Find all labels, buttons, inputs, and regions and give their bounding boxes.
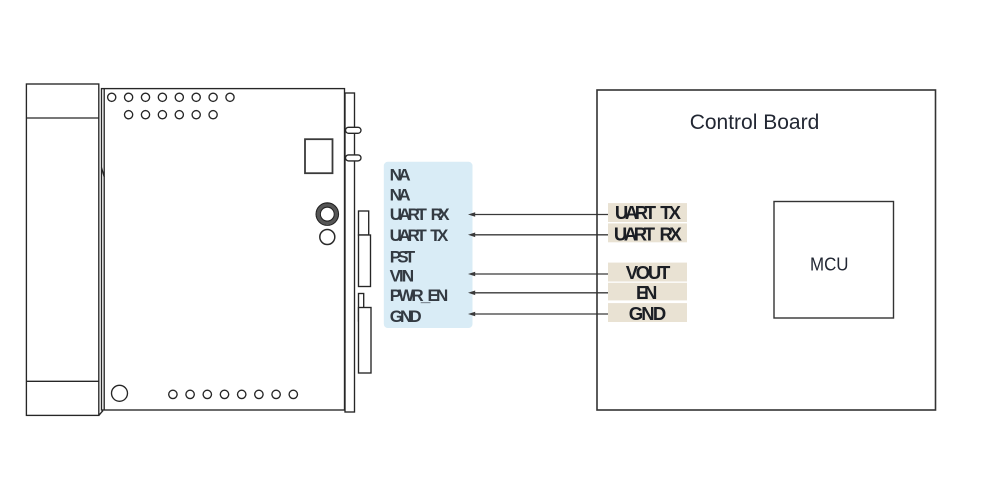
svg-text:TX: TX — [660, 202, 681, 223]
control pin EN box — [608, 283, 687, 301]
svg-text:GND: GND — [390, 307, 422, 326]
pin 2 — [346, 155, 362, 161]
control pin UART RX box — [608, 223, 687, 242]
control board outline — [597, 90, 936, 410]
svg-text:MCU: MCU — [810, 254, 849, 275]
control pin VOUT box — [608, 263, 687, 282]
module pin-name panel (blue) — [384, 162, 473, 328]
barrel to pcb bottom bevel — [99, 411, 103, 416]
svg-text:NA: NA — [390, 165, 411, 184]
svg-text:UART: UART — [390, 205, 428, 224]
small square component top right — [305, 139, 333, 173]
wire EN -> PWR_EN — [468, 291, 611, 296]
svg-text:UART: UART — [390, 226, 428, 245]
svg-text:RX: RX — [660, 223, 683, 244]
svg-text:Control Board: Control Board — [690, 111, 820, 134]
top hole row 2 (6 holes) — [125, 111, 218, 119]
svg-text:UART: UART — [614, 223, 656, 244]
lidar module lens barrel — [26, 84, 103, 415]
svg-text:VIN: VIN — [390, 267, 415, 286]
right side wall strip — [345, 93, 355, 412]
MCU block — [774, 202, 894, 319]
top hole row 1 (8 holes) — [108, 93, 234, 101]
wire VOUT -> VIN — [468, 272, 611, 277]
pin 1 (top right) — [346, 127, 362, 133]
wire GND -> GND — [468, 312, 611, 317]
small circle below ring — [320, 230, 335, 245]
svg-text:GND: GND — [629, 303, 667, 324]
wire UART RX -> UART TX — [468, 233, 611, 238]
svg-text:NA: NA — [390, 186, 411, 205]
svg-text:EN: EN — [636, 282, 657, 303]
bottom left big hole — [112, 385, 128, 401]
control pin UART TX box — [608, 203, 687, 222]
svg-text:PWR_EN: PWR_EN — [390, 286, 449, 305]
svg-text:UART: UART — [615, 202, 657, 223]
lens barrel top line — [26, 117, 98, 119]
pcb inner left edge line — [103, 89, 105, 410]
module PCB body — [102, 89, 345, 410]
ring component (lens screw) — [316, 203, 338, 225]
bottom hole row (8 holes) — [169, 390, 298, 398]
small diagonal tick on left edge — [102, 168, 105, 178]
control pin GND box — [608, 303, 687, 322]
lower connector block — [359, 294, 372, 374]
wire UART TX -> UART RX — [468, 212, 611, 217]
svg-text:PST: PST — [390, 248, 416, 267]
svg-text:VOUT: VOUT — [626, 262, 671, 283]
svg-text:TX: TX — [430, 226, 449, 245]
upper connector block — [359, 211, 371, 287]
svg-text:RX: RX — [431, 205, 451, 224]
lens barrel bottom line — [26, 380, 98, 382]
